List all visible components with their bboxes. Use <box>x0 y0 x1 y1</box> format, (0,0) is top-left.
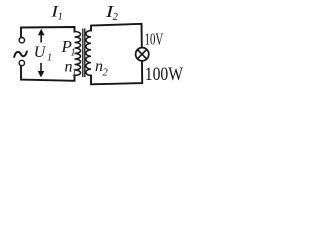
svg-text:U: U <box>34 44 47 61</box>
svg-text:10V: 10V <box>145 30 164 49</box>
svg-text:1: 1 <box>58 12 63 23</box>
svg-text:2: 2 <box>103 67 109 78</box>
svg-text:100W: 100W <box>145 64 183 85</box>
svg-text:1: 1 <box>72 68 77 79</box>
svg-text:1: 1 <box>47 53 52 64</box>
svg-text:2: 2 <box>113 12 119 23</box>
svg-text:1: 1 <box>71 48 76 59</box>
